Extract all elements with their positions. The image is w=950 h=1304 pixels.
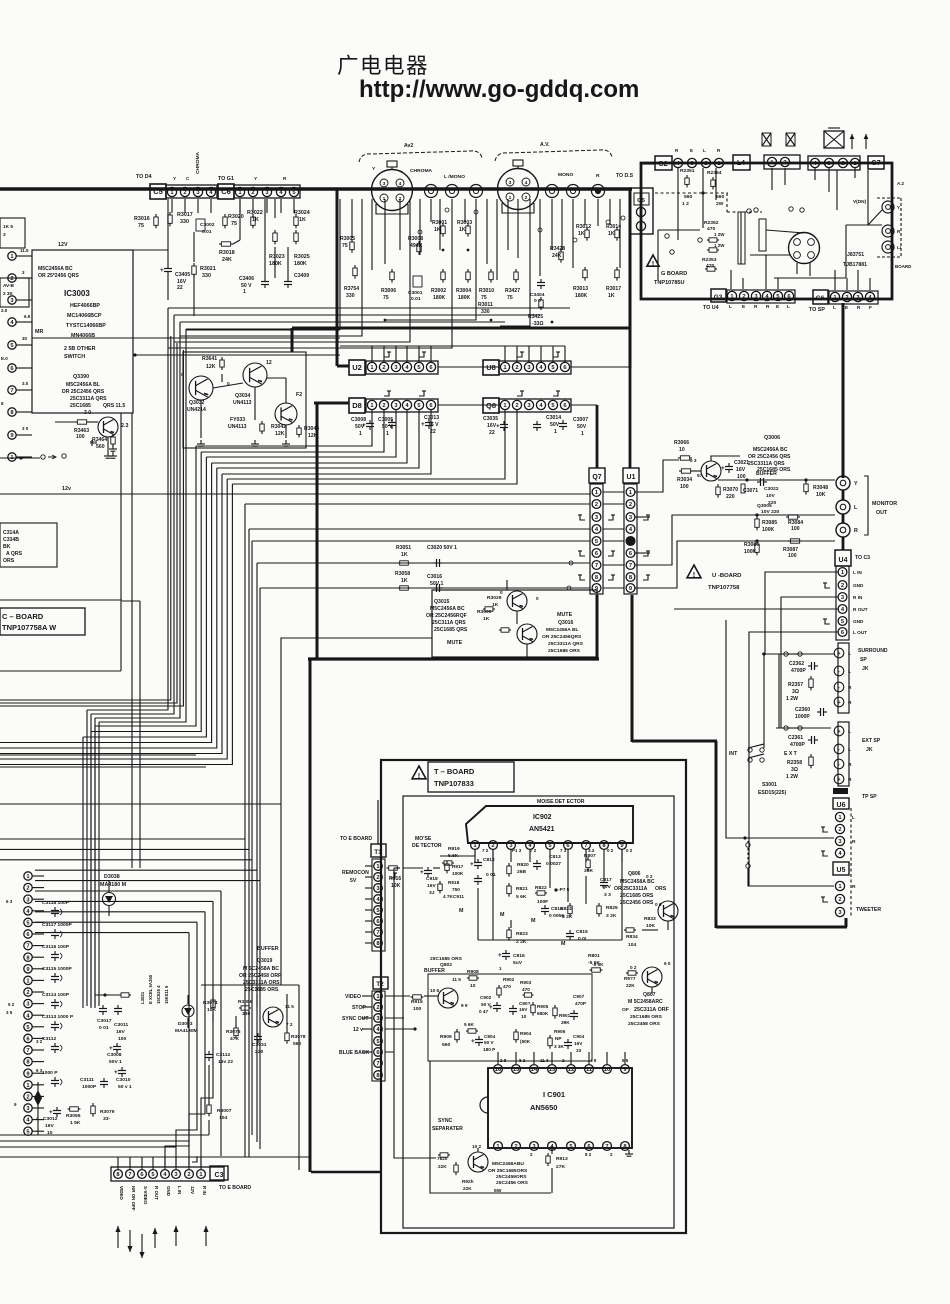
svg-text:3: 3 [376,1016,379,1022]
svg-text:R903: R903 [520,980,532,985]
svg-text:VIDEO: VIDEO [345,994,361,1000]
svg-text:Q3034: Q3034 [235,393,251,399]
svg-text:7: 7 [595,563,598,569]
svg-text:ESD15(225): ESD15(225) [758,790,786,796]
svg-text:C3: C3 [215,1172,224,1179]
svg-text:OF: OF [622,1007,629,1013]
svg-text:A.V.: A.V. [540,142,550,148]
svg-text:R3008: R3008 [408,236,423,242]
svg-text:TNP107758: TNP107758 [708,585,740,591]
svg-text:75: 75 [231,221,237,227]
svg-text:+: + [721,465,725,472]
svg-text:75: 75 [507,295,513,301]
svg-text:M5C2456A BL: M5C2456A BL [546,627,579,633]
svg-text:25C2456 ORS: 25C2456 ORS [620,900,654,906]
svg-text:1 5K: 1 5K [70,1120,81,1126]
svg-text:D8: D8 [352,401,362,410]
svg-text:0 0027: 0 0027 [546,861,561,867]
svg-text:1K: 1K [459,227,466,233]
svg-text:560: 560 [716,194,724,200]
svg-text:E: E [776,304,779,309]
svg-text:2: 2 [10,276,13,282]
svg-text:NP: NP [555,1036,562,1041]
svg-text:R IN: R IN [202,1186,207,1195]
svg-text:R: R [857,305,861,310]
svg-text:3: 3 [690,161,693,167]
svg-text:R834: R834 [626,934,638,940]
svg-text:E X T: E X T [784,751,798,757]
svg-text:2: 2 [382,365,385,371]
svg-text:6: 6 [566,843,569,849]
svg-text:R3014: R3014 [606,224,621,230]
svg-text:47K: 47K [230,1036,239,1042]
svg-text:R824: R824 [560,906,572,912]
svg-text:C3406: C3406 [239,276,254,282]
svg-text:+: + [471,1038,475,1045]
svg-text:12 v: 12 v [353,1027,363,1033]
svg-text:39K: 39K [561,1020,570,1025]
svg-text:3J: 3J [429,890,435,896]
svg-text:L3021: L3021 [140,991,145,1004]
svg-text:2: 2 [26,1095,29,1101]
svg-text:L: L [848,729,851,735]
svg-text:5V: 5V [350,878,357,884]
svg-text:7 2: 7 2 [482,848,489,853]
svg-text:1K: 1K [299,217,306,223]
svg-text:R: R [766,304,770,309]
svg-text:50V 1: 50V 1 [109,1059,122,1065]
svg-text:+: + [837,700,840,706]
svg-text:http://www.go-gddq.com: http://www.go-gddq.com [359,76,639,103]
svg-text:C3409: C3409 [294,273,309,279]
svg-text:6 0: 6 0 [664,961,671,966]
svg-text:6: 6 [563,403,566,409]
svg-text:100K: 100K [744,549,757,555]
svg-text:C3114 100P: C3114 100P [42,992,70,998]
svg-text:R2353: R2353 [702,257,717,263]
svg-text:1K: 1K [578,231,585,237]
svg-text:C3404: C3404 [530,292,545,298]
svg-text:0 2: 0 2 [646,874,653,879]
svg-text:SP: SP [860,657,867,663]
svg-text:U -BOARD: U -BOARD [712,573,741,579]
svg-text:9: 9 [620,843,623,849]
svg-text:3 0: 3 0 [84,410,91,416]
svg-text:R: R [848,685,852,691]
svg-text:2: 2 [515,365,518,371]
svg-text:25C1685: 25C1685 [70,403,91,409]
svg-text:!: ! [418,771,421,780]
svg-text:3: 3 [10,298,13,304]
svg-text:3: 3 [509,180,512,186]
svg-text:470: 470 [522,987,530,992]
svg-text:OR 25C2456QRS: OR 25C2456QRS [542,634,582,640]
svg-text:7 3: 7 3 [560,848,567,853]
svg-text:R906: R906 [554,1029,566,1034]
svg-text:12K: 12K [206,364,216,370]
svg-text:OR 25C2456 QRS: OR 25C2456 QRS [748,454,791,460]
svg-text:G7: G7 [871,160,880,167]
svg-text:M5C2458A BC: M5C2458A BC [620,879,655,885]
svg-text:6: 6 [10,366,13,372]
svg-text:13: 13 [549,1067,555,1073]
svg-text:180K: 180K [294,261,307,267]
svg-text:75: 75 [383,295,389,301]
svg-text:L: L [729,304,732,309]
svg-text:1 2: 1 2 [682,201,689,207]
svg-text:R3021: R3021 [200,266,216,272]
svg-text:2: 2 [838,897,841,903]
svg-text:16V: 16V [45,1123,54,1129]
svg-text:10K: 10K [207,1007,216,1013]
svg-text:R801: R801 [588,953,600,959]
svg-text:TO E BOARD: TO E BOARD [340,836,372,842]
svg-text:2: 2 [841,583,844,589]
svg-text:2: 2 [841,161,844,167]
svg-text:T2: T2 [376,981,384,988]
svg-text:1: 1 [243,289,246,295]
svg-text:R3005: R3005 [340,236,355,242]
svg-text:16V: 16V [487,423,497,429]
svg-text:C3008: C3008 [351,417,366,423]
svg-text:STOP: STOP [352,1005,366,1011]
svg-text:R3012: R3012 [576,224,591,230]
svg-text:R: R [283,176,287,181]
svg-text:U6: U6 [837,802,846,809]
svg-text:AN5650: AN5650 [530,1103,557,1112]
svg-text:+: + [496,423,500,430]
svg-text:16v 22: 16v 22 [218,1059,233,1065]
svg-text:2 5B OTHER: 2 5B OTHER [64,346,96,352]
svg-text:7: 7 [26,944,29,950]
svg-text:3Ω: 3Ω [792,689,799,695]
svg-text:3: 3 [838,839,841,845]
svg-text:7: 7 [605,1144,608,1150]
svg-text:25C1685 ORS: 25C1685 ORS [620,893,654,899]
svg-text:C3111: C3111 [80,1077,94,1083]
svg-text:C3010: C3010 [116,1077,131,1083]
svg-text:C3011: C3011 [114,1022,128,1028]
svg-text:4700P: 4700P [790,742,805,748]
svg-text:12v: 12v [62,486,71,492]
svg-text:22: 22 [489,430,495,436]
svg-text:C6: C6 [221,187,231,196]
svg-text:M: M [531,918,536,924]
svg-text:!: ! [693,570,696,579]
svg-text:R: R [848,777,852,783]
svg-text:3: 3 [527,403,530,409]
svg-text:C3116 100P: C3116 100P [42,944,70,950]
svg-text:3.3: 3.3 [588,848,595,853]
svg-text:+: + [498,952,502,959]
svg-text:TO G1: TO G1 [218,176,234,182]
svg-text:R3076: R3076 [226,1029,241,1035]
svg-text:25C3311A QRS: 25C3311A QRS [70,396,107,402]
svg-text:3: 3 [3,232,6,237]
svg-text:UN4113: UN4113 [233,400,252,406]
svg-text:C – BOARD: C – BOARD [2,612,44,621]
svg-text:R IN: R IN [853,595,863,600]
svg-text:C3020 50V 1: C3020 50V 1 [427,545,457,551]
svg-text:50V 1: 50V 1 [430,581,444,587]
svg-text:OUT: OUT [876,510,888,516]
svg-text:0 47: 0 47 [479,1009,489,1014]
svg-text:C813: C813 [549,854,561,860]
svg-text:10 6: 10 6 [430,988,440,993]
svg-text:470P: 470P [575,1001,586,1006]
svg-text:ORS: ORS [3,558,15,564]
svg-text:50V: 50V [355,424,365,430]
svg-text:75: 75 [481,295,487,301]
svg-text:SYNC: SYNC [438,1118,453,1124]
svg-text:100K: 100K [452,871,464,876]
svg-text:100: 100 [413,1006,421,1012]
svg-text:R3007: R3007 [217,1108,232,1114]
svg-text:3: 3 [754,294,757,300]
svg-text:C3008: C3008 [107,1052,122,1058]
svg-text:5W: 5W [494,1188,502,1194]
svg-text:R919: R919 [448,846,460,852]
svg-text:-5 6K: -5 6K [592,962,604,967]
svg-text:R3042: R3042 [271,424,286,430]
svg-text:3 2K: 3 2K [606,913,617,919]
svg-text:D3038: D3038 [104,874,120,880]
svg-text:R807: R807 [584,853,596,859]
svg-text:C3017: C3017 [97,1018,112,1024]
svg-text:Q3390: Q3390 [73,374,89,380]
svg-text:50 V: 50 V [481,1002,492,1007]
svg-text:R: R [854,528,858,534]
svg-text:MOISE DET ECTOR: MOISE DET ECTOR [537,799,585,805]
svg-text:3 3: 3 3 [604,892,611,898]
svg-text:6.9: 6.9 [24,314,31,319]
svg-text:330: 330 [180,219,189,225]
svg-text:330: 330 [481,309,490,315]
svg-text:6: 6 [26,932,29,938]
svg-text:2.3: 2.3 [121,423,128,429]
svg-text:R3017: R3017 [177,212,193,218]
svg-text:24K: 24K [552,253,562,259]
svg-text:CHROMA: CHROMA [195,151,201,174]
svg-text:M5C2456A BL: M5C2456A BL [66,382,100,388]
svg-text:C3021: C3021 [734,460,749,466]
svg-text:VIDEO: VIDEO [119,1186,124,1200]
svg-text:GND: GND [166,1186,171,1197]
svg-text:7: 7 [26,1048,29,1054]
svg-text:7: 7 [128,1172,131,1178]
svg-text:R3003: R3003 [457,220,472,226]
svg-text:OR 25C1685ORS: OR 25C1685ORS [488,1168,528,1174]
svg-text:0.01: 0.01 [202,229,212,235]
svg-text:R2354: R2354 [707,170,722,176]
svg-text:TO E BOARD: TO E BOARD [219,1185,251,1191]
svg-text:9: 9 [26,967,29,973]
svg-text:8 2: 8 2 [519,1058,526,1063]
svg-text:1000P: 1000P [82,1084,97,1090]
svg-text:16V: 16V [427,883,436,889]
svg-text:3 0: 3 0 [22,426,29,431]
svg-text:220: 220 [255,1049,263,1055]
svg-text:R OUT: R OUT [853,607,868,612]
svg-text:180 P: 180 P [483,1047,495,1052]
svg-text:C314A: C314A [3,530,19,536]
svg-text:HEF4066BP: HEF4066BP [70,303,100,309]
svg-text:26B: 26B [517,869,526,875]
svg-text:TO D4: TO D4 [136,174,152,180]
svg-text:C: C [186,176,190,181]
svg-text:R3055: R3055 [66,1113,81,1119]
svg-text:DE TECTOR: DE TECTOR [412,843,442,849]
svg-text:16V: 16V [574,1041,583,1046]
svg-text:T – BOARD: T – BOARD [434,767,475,776]
svg-text:0.01: 0.01 [411,296,421,302]
svg-text:2: 2 [26,886,29,892]
svg-text:+: + [421,421,425,428]
svg-text:180K: 180K [433,295,446,301]
svg-text:39K: 39K [584,868,593,874]
svg-text:E XCEL 5A350: E XCEL 5A350 [148,974,153,1004]
svg-text:R3016: R3016 [134,216,150,222]
svg-text:R825: R825 [606,905,618,911]
svg-text:U5: U5 [837,867,846,874]
svg-text:C3007: C3007 [573,417,588,423]
svg-text:L IN: L IN [853,570,862,575]
svg-text:U1: U1 [627,474,636,481]
svg-text:R909: R909 [440,1034,452,1040]
svg-text:R: R [852,884,856,890]
svg-text:C907: C907 [573,994,585,999]
svg-text:AV-B: AV-B [3,283,14,288]
svg-text:16V: 16V [116,1029,125,1035]
svg-text:25C1685 ORS: 25C1685 ORS [630,1014,663,1020]
svg-text:C2361: C2361 [788,735,803,741]
svg-text:6: 6 [587,1144,590,1150]
svg-text:C902: C902 [480,995,492,1000]
svg-text:0 2: 0 2 [626,848,633,853]
svg-text:Q3032: Q3032 [189,400,205,406]
svg-text:R: R [852,839,856,845]
svg-text:Q3016: Q3016 [558,620,574,626]
svg-text:Y: Y [897,205,900,210]
svg-text:+: + [109,1045,113,1052]
svg-text:G BOARD: G BOARD [661,271,687,277]
svg-text:50V: 50V [602,884,611,890]
svg-text:1K: 1K [434,227,441,233]
svg-text:R3024: R3024 [294,210,310,216]
svg-text:100: 100 [737,474,746,480]
svg-text:3Ω: 3Ω [791,767,798,773]
svg-text:0 2: 0 2 [630,965,637,970]
svg-text:C3005: C3005 [378,417,393,423]
svg-text:TO D.S: TO D.S [616,173,634,179]
svg-text:R3010: R3010 [479,288,494,294]
svg-text:R3020: R3020 [228,214,244,220]
svg-text:R3078: R3078 [291,1034,306,1040]
svg-text:M: M [561,941,566,947]
svg-text:IC3003: IC3003 [64,289,90,298]
svg-text:L /MONO: L /MONO [444,174,465,180]
svg-text:11: 11 [586,1067,593,1073]
svg-text:1K: 1K [401,552,408,558]
svg-text:0 2: 0 2 [607,848,614,853]
svg-text:3: 3 [527,365,530,371]
svg-text:330: 330 [202,273,211,279]
svg-text:2: 2 [251,190,254,196]
svg-text:Q3019: Q3019 [257,958,273,964]
svg-text:C3115 1000P: C3115 1000P [42,966,72,972]
svg-text:R3001: R3001 [432,220,447,226]
svg-text:SEPARATER: SEPARATER [432,1126,463,1132]
svg-text:MO'SE: MO'SE [415,836,432,842]
svg-text:REMOCON: REMOCON [342,870,369,876]
svg-text:Q802: Q802 [440,962,452,968]
svg-text:M: M [500,912,505,918]
svg-text:R821: R821 [516,886,528,892]
svg-text:1: 1 [509,195,512,201]
svg-text:1K: 1K [608,231,615,237]
svg-text:25C311A QRS: 25C311A QRS [432,620,466,626]
svg-text:U4: U4 [839,557,848,564]
svg-text:R3034: R3034 [677,477,692,483]
svg-text:5 6K: 5 6K [464,1022,475,1027]
svg-text:1: 1 [499,966,502,971]
svg-text:R3004: R3004 [456,288,471,294]
svg-text:330: 330 [242,1011,250,1017]
svg-text:广电电器: 广电电器 [337,54,429,78]
svg-text:C2360: C2360 [795,707,810,713]
svg-text:2.0: 2.0 [1,308,8,313]
svg-text:4: 4 [525,180,528,186]
svg-text:D3003: D3003 [178,1021,193,1027]
svg-text:-: - [838,747,840,753]
svg-text:C3035: C3035 [483,416,498,422]
svg-text:0 6: 0 6 [655,902,662,907]
svg-text:R3085: R3085 [762,520,777,526]
svg-text:OR 25C3311A: OR 25C3311A [614,886,648,892]
svg-text:25C1685 ORS: 25C1685 ORS [430,956,463,962]
svg-text:A QRS: A QRS [6,551,23,557]
svg-text:+: + [837,651,840,657]
svg-text:G3: G3 [714,294,723,301]
svg-text:2: 2 [704,161,707,167]
svg-text:JK: JK [866,747,873,753]
svg-text:Q807: Q807 [643,992,656,998]
svg-text:GND: GND [853,619,864,624]
svg-text:R OUT: R OUT [154,1186,159,1200]
svg-text:9: 9 [10,433,13,439]
svg-text:560: 560 [684,194,692,200]
svg-text:7: 7 [629,563,632,569]
svg-text:QRS 11.5: QRS 11.5 [103,403,125,409]
svg-text:+: + [160,267,164,274]
svg-text:MC14066BCP: MC14066BCP [67,313,102,319]
svg-text:L: L [703,148,706,153]
svg-text:27K: 27K [556,1164,565,1170]
svg-text:C911: C911 [453,894,464,899]
svg-text:R3011: R3011 [478,302,493,308]
svg-text:0: 0 [536,596,539,601]
svg-text:3: 3 [532,1144,535,1150]
svg-text:Q806: Q806 [628,871,641,877]
svg-text:+: + [114,1069,118,1076]
svg-text:C815: C815 [576,929,588,935]
svg-text:R3018: R3018 [219,250,235,256]
svg-text:100: 100 [680,484,689,490]
svg-text:750: 750 [452,887,460,892]
svg-text:+: + [420,869,424,876]
svg-text:-: - [838,762,840,768]
svg-text:2: 2 [845,295,848,301]
